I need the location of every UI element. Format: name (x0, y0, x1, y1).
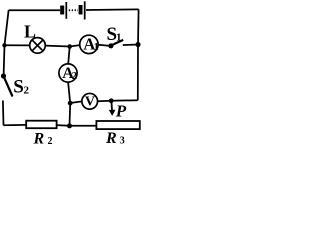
wire bottom-left horizontal (4, 124, 27, 126)
rheostat wiper arrowhead P (109, 110, 116, 116)
svg-text:L: L (24, 22, 36, 42)
junction dot center (lamp/A1/A2) (67, 44, 72, 49)
wire left vertical lower (2, 101, 5, 126)
svg-text:S: S (13, 77, 24, 98)
ammeter A2 body (59, 64, 77, 82)
wire center junction to ammeter A1 (70, 45, 80, 46)
switch S2 pivot dot (1, 73, 6, 78)
svg-text:R: R (33, 130, 45, 146)
lamp L body (30, 38, 46, 54)
wire A1 to switch S1 (98, 45, 109, 46)
svg-text:1: 1 (116, 31, 122, 43)
battery B1 positive plate (long thin bar, left cell) (65, 2, 67, 19)
svg-text:2: 2 (72, 71, 77, 82)
rheostat R3 body (96, 121, 139, 129)
svg-text:P: P (115, 101, 127, 120)
switch S2 blade (open, angled) (4, 76, 13, 97)
switch S1 pivot dot (108, 43, 113, 48)
rheostat wiper arrow stem (110, 101, 113, 111)
wire top-left horizontal (9, 9, 61, 11)
wire right vertical (137, 9, 140, 100)
svg-text:2: 2 (24, 84, 30, 96)
wire R2 to bottom junction (57, 124, 70, 127)
wire V junction down to bottom junction (69, 103, 72, 126)
wire S1 to right wire (123, 44, 136, 46)
junction dot V tap on center vertical (68, 101, 73, 106)
junction dot bottom wire (67, 123, 72, 128)
svg-text:3: 3 (120, 136, 125, 147)
junction dot left lamp tap (2, 43, 6, 47)
wire left vertical upper (4, 10, 9, 75)
battery dotted continuation between cells (69, 9, 78, 11)
battery B2 positive plate (long thin bar, right cell) (84, 1, 86, 19)
wire lamp to center junction (45, 45, 69, 48)
wire lamp branch left (5, 44, 30, 46)
voltmeter V body (82, 93, 98, 109)
wire A2 down to V junction (68, 82, 70, 103)
wire bottom junction to R3 (70, 125, 97, 127)
svg-text:1: 1 (94, 42, 99, 53)
svg-text:R: R (105, 130, 117, 146)
junction dot wiper tap (109, 98, 114, 103)
resistor R2 body (26, 121, 56, 129)
lamp L cross stroke 2 (32, 40, 43, 51)
wire V branch left (70, 101, 82, 103)
ammeter A1 body (80, 35, 98, 53)
battery B2 negative plate (thick short bar, right cell) (79, 5, 83, 15)
svg-text:2: 2 (48, 136, 53, 146)
svg-text:V: V (85, 95, 95, 110)
wire center vertical junction to A2 (68, 47, 70, 64)
wire top-right horizontal (86, 8, 139, 11)
wire wiper junction to right corner (111, 99, 138, 102)
battery B1 negative plate (thick short bar, left cell) (60, 6, 64, 15)
lamp L cross stroke 1 (32, 40, 43, 51)
switch S1 blade (open, angled) (112, 40, 124, 45)
junction dot right wire at S1 (135, 42, 140, 47)
wire V to wiper junction (98, 100, 112, 103)
